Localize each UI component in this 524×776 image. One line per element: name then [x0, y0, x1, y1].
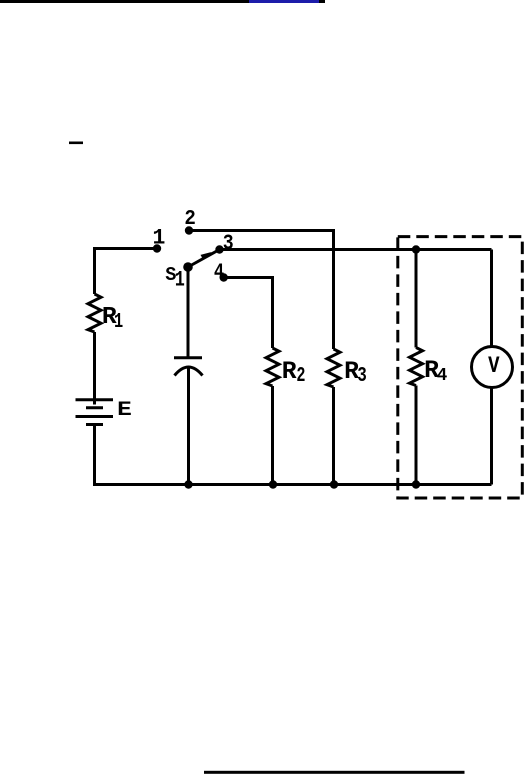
- svg-text:3: 3: [357, 363, 367, 388]
- svg-text:E: E: [117, 398, 132, 422]
- svg-text:4: 4: [214, 259, 224, 285]
- svg-text:V: V: [488, 354, 500, 380]
- svg-text:3: 3: [223, 232, 234, 257]
- svg-text:4: 4: [437, 366, 448, 386]
- svg-text:1: 1: [175, 267, 185, 292]
- svg-text:R: R: [344, 358, 359, 386]
- svg-text:1: 1: [153, 226, 166, 250]
- svg-text:2: 2: [184, 207, 195, 231]
- svg-text:R: R: [282, 358, 297, 386]
- svg-text:1: 1: [114, 310, 123, 334]
- svg-text:2: 2: [296, 365, 305, 388]
